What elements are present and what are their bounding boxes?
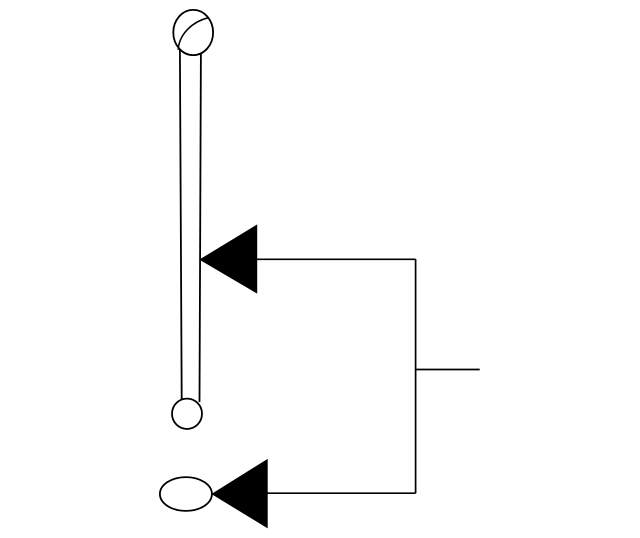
node A: top terminal ball outline [173,10,213,55]
wire: right vertical [415,259,417,493]
node C: lower terminal ellipse [160,477,212,511]
node B: rod bottom ball [172,399,202,429]
wire: top horizontal [257,258,416,260]
wire: bottom horizontal [267,492,415,494]
wire: rod left side [180,50,182,400]
wire: rod right side [200,54,201,403]
node A: inner arc of top ball [178,18,209,50]
wire: output stub [416,369,480,371]
arrowhead Q1: upper probe triangle [200,225,256,292]
arrowhead Q2: lower probe triangle [212,460,267,528]
